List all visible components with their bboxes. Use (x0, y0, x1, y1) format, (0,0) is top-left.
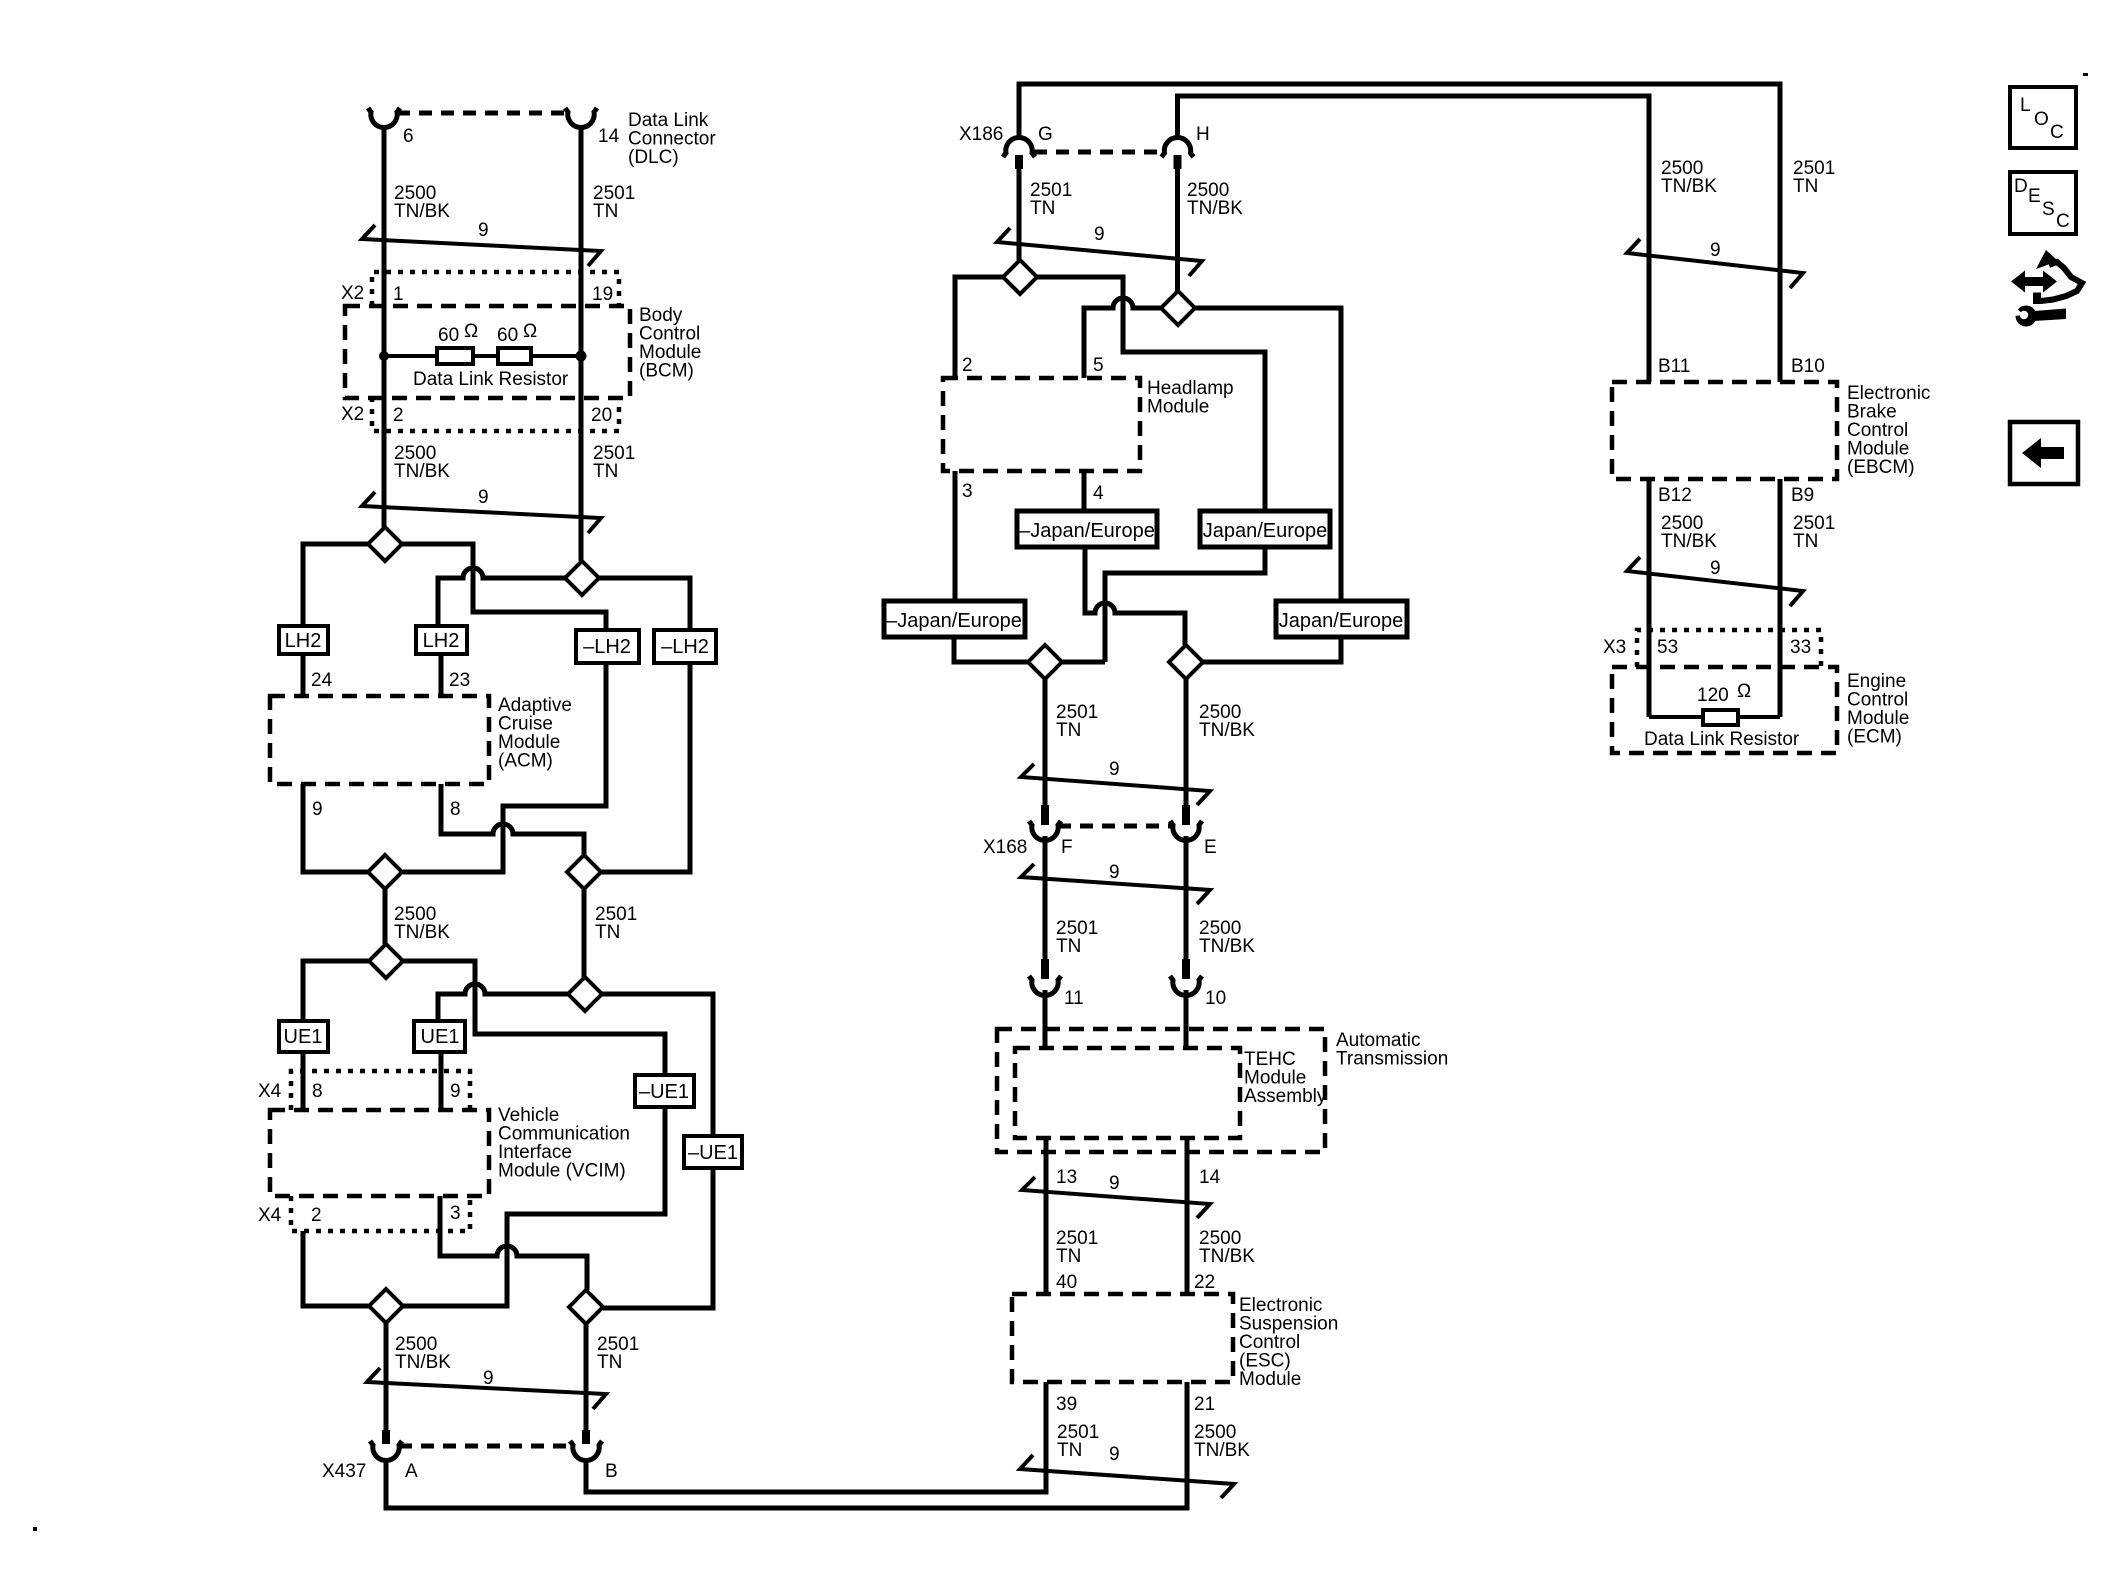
icon curved arrow band (2036, 262, 2082, 301)
svg-text:Data Link Resistor: Data Link Resistor (1644, 729, 1800, 750)
svg-text:3: 3 (962, 481, 973, 502)
wire 2501 TN G to splice S9 (1017, 169, 1022, 260)
svg-text:E: E (2028, 186, 2041, 207)
svg-text:2: 2 (311, 1205, 322, 1226)
svg-text:2: 2 (962, 355, 973, 376)
module TEHC inner dashed box (1015, 1048, 1240, 1138)
splice S4 (368, 855, 402, 889)
svg-text:9: 9 (478, 220, 489, 241)
wire 2500 TN/BK S4 to S5 (383, 889, 388, 944)
wire splice branch right of S10 to Japan/Europe B (1195, 308, 1341, 601)
svg-text:Module: Module (1147, 397, 1209, 418)
svg-text:9: 9 (1109, 1173, 1120, 1194)
wire splice branch left of S1 (303, 544, 368, 626)
wire -LH2 b return to splice S3 (601, 663, 690, 872)
option box UE1 b (414, 1021, 465, 1052)
splice S8 (369, 1289, 403, 1323)
terminal tick 10 (1182, 959, 1190, 979)
connector X186 dashed line (1034, 150, 1163, 155)
module EBCM dashed box (1612, 382, 1837, 479)
twisted pair symbol 4 (997, 228, 1202, 276)
wire 2501 TN X168 F down (1043, 836, 1048, 962)
svg-text:3: 3 (450, 1203, 461, 1224)
connector X4 row 2 (291, 1196, 470, 1231)
svg-text:21: 21 (1194, 1394, 1215, 1415)
svg-text:O: O (2034, 109, 2049, 130)
svg-text:UE1: UE1 (284, 1026, 323, 1048)
svg-text:TN/BK: TN/BK (1199, 936, 1255, 957)
wire Japan/Europe b return to splice S12 (1203, 637, 1341, 662)
wire LH2 a to ACM pin 24 (301, 654, 306, 696)
svg-text:G: G (1038, 124, 1053, 145)
svg-text:8: 8 (450, 799, 461, 820)
svg-text:11: 11 (1064, 988, 1084, 1009)
icon curved arrow head (2036, 250, 2058, 269)
wire splice branch left of S9 to headlamp pin 2 (955, 277, 1003, 378)
icon wrench (2016, 306, 2037, 327)
svg-text:(DLC): (DLC) (628, 147, 679, 168)
svg-text:24: 24 (311, 670, 333, 691)
wire VCIM pin 3 to splice S7 with hop (440, 1196, 587, 1290)
wire splice branch left of S2 with crossover hop (438, 568, 565, 626)
module ESC dashed box (1012, 1294, 1233, 1382)
connector X186 cup H (1162, 138, 1194, 157)
connector X4 row 1 (291, 1071, 470, 1110)
svg-text:TN: TN (1057, 1440, 1082, 1461)
svg-text:(EBCM): (EBCM) (1847, 457, 1915, 478)
wire splice branch right of S2 (599, 578, 690, 630)
wire splice branch left of S5 (303, 961, 369, 1021)
wire 2501 TN TEHC pin 13 down (1044, 1138, 1049, 1294)
option box -Japan/Europe a (1017, 511, 1157, 547)
svg-text:H: H (1196, 124, 1210, 145)
svg-text:10: 10 (1205, 988, 1226, 1009)
svg-text:TN/BK: TN/BK (394, 922, 450, 943)
connector DLC dashed line (397, 111, 568, 116)
wire headlamp pin 3 to -Japan/Europe b (953, 471, 958, 601)
svg-text:TN: TN (1793, 531, 1818, 552)
svg-text:TN: TN (1056, 720, 1081, 741)
svg-text:TN: TN (1793, 176, 1818, 197)
svg-text:TN/BK: TN/BK (394, 461, 450, 482)
connector X168 cup F (1029, 821, 1061, 840)
svg-text:(ACM): (ACM) (498, 751, 553, 772)
wire 2500 TN/BK H to splice S10 (1175, 169, 1180, 291)
connector X168 dashed line (1058, 824, 1173, 829)
svg-text:(ECM): (ECM) (1847, 727, 1902, 748)
option box -UE1 b (684, 1136, 742, 1168)
twisted pair symbol 7 (1022, 1177, 1210, 1218)
connector X168 terminal tick F (1041, 805, 1049, 825)
wire UE1 b to X4 pin 9 (439, 1052, 444, 1110)
twisted pair symbol (362, 225, 601, 266)
svg-text:–Japan/Europe: –Japan/Europe (886, 610, 1022, 632)
svg-text:D: D (2014, 176, 2028, 197)
option box -LH2 a (576, 630, 639, 663)
splice S9 (1003, 260, 1037, 294)
svg-text:–UE1: –UE1 (688, 1142, 738, 1164)
svg-text:B: B (605, 1461, 618, 1482)
svg-text:33: 33 (1790, 637, 1811, 658)
connector X186 terminal tick H (1174, 155, 1182, 169)
svg-text:9: 9 (478, 487, 489, 508)
svg-text:9: 9 (312, 799, 323, 820)
svg-text:TN/BK: TN/BK (1199, 720, 1255, 741)
connector X168 terminal tick E (1182, 805, 1190, 825)
svg-text:9: 9 (1109, 862, 1120, 883)
svg-text:LH2: LH2 (285, 630, 322, 652)
wire 2500 TN/BK EBCM B12 to ECM pin 53 (1647, 479, 1652, 717)
wire data link resistor chain ECM (1649, 715, 1780, 719)
connector X437 cup A (370, 1441, 402, 1460)
svg-text:LH2: LH2 (423, 630, 460, 652)
splice S10 (1161, 291, 1195, 325)
option box LH2 b (416, 626, 467, 654)
wire splice S11 right arm (1062, 660, 1105, 665)
svg-text:9: 9 (483, 1368, 494, 1389)
wire headlamp pin 4 to -Japan/Europe a (1082, 471, 1087, 511)
terminal cup 10 (1170, 976, 1202, 995)
svg-text:TN: TN (1056, 936, 1081, 957)
twisted pair symbol 6 (1021, 864, 1210, 904)
svg-text:6: 6 (403, 126, 414, 147)
svg-text:Module: Module (1239, 1369, 1301, 1390)
wire 2500 TN/BK S12 to X168 E (1184, 679, 1189, 810)
stray mark bottom left (33, 1527, 37, 1531)
splice S6 (568, 977, 602, 1011)
svg-text:A: A (405, 1461, 418, 1482)
wire Japan/Europe a return to splice S11 (1105, 547, 1265, 662)
svg-text:C: C (2056, 211, 2070, 232)
resistor R2 60 ohm (498, 348, 531, 364)
svg-text:9: 9 (1109, 1444, 1120, 1465)
option box Japan/Europe a (1200, 511, 1330, 547)
wire top bus 2501 TN from X186 G to EBCM B10 (1019, 84, 1780, 382)
svg-text:9: 9 (1109, 759, 1120, 780)
svg-text:X186: X186 (959, 124, 1003, 145)
twisted pair symbol 8 (1020, 1455, 1234, 1498)
svg-text:2: 2 (393, 405, 404, 426)
wire 2501 TN from DLC pin 14 (579, 125, 584, 561)
svg-text:20: 20 (591, 405, 612, 426)
wire UE1 a to X4 pin 8 (301, 1052, 306, 1110)
option box -UE1 a (635, 1075, 694, 1107)
option box UE1 a (279, 1021, 328, 1052)
splice S2 (565, 561, 599, 595)
wire -LH2 a return to splice S4 (403, 663, 606, 872)
wire LH2 b to ACM pin 23 (439, 654, 444, 696)
connector DLC cup pin 6 (368, 108, 400, 127)
svg-text:F: F (1061, 837, 1073, 858)
wire top bus 2500 TN/BK from X186 H to EBCM B11 (1178, 96, 1650, 382)
connector X437 terminal tick A (382, 1430, 390, 1444)
svg-text:Module (VCIM): Module (VCIM) (498, 1161, 626, 1182)
svg-text:9: 9 (1710, 240, 1721, 261)
wire cup 11 to TEHC (1043, 990, 1048, 1048)
svg-text:X4: X4 (258, 1081, 282, 1102)
splice S11 (1028, 645, 1062, 679)
connector X437 dashed line (399, 1444, 573, 1449)
wire -Japan/Europe a return to splice S12 with hop (1085, 547, 1185, 645)
svg-text:TN/BK: TN/BK (1187, 198, 1243, 219)
svg-text:Japan/Europe: Japan/Europe (1279, 610, 1404, 632)
connector X3 row (1637, 630, 1821, 667)
wire ACM pin 9 to splice S4 (303, 784, 368, 872)
svg-text:13: 13 (1056, 1167, 1077, 1188)
option box Japan/Europe b (1276, 601, 1407, 637)
splice S1 (368, 527, 402, 561)
wire -UE1 a return to splice S8 (403, 1107, 665, 1306)
svg-text:L: L (2020, 95, 2031, 116)
module BCM dashed box (345, 306, 630, 398)
resistor R3 120 ohm (1703, 710, 1738, 725)
svg-text:–Japan/Europe: –Japan/Europe (1019, 520, 1155, 542)
module ECM dashed box (1612, 667, 1837, 753)
stray mark top right (2083, 73, 2088, 76)
connector X2 row 2 (372, 397, 619, 431)
svg-text:TN/BK: TN/BK (394, 201, 450, 222)
module Automatic Transmission outer dashed box (997, 1029, 1325, 1152)
svg-text:Transmission: Transmission (1336, 1049, 1448, 1070)
junction dot right (576, 351, 587, 362)
svg-text:X168: X168 (983, 837, 1027, 858)
svg-text:UE1: UE1 (421, 1026, 460, 1048)
svg-text:60: 60 (497, 325, 518, 346)
wire -Japan/Europe b return to splice S11 (954, 637, 1028, 662)
svg-text:B11: B11 (1658, 356, 1690, 377)
svg-text:X2: X2 (341, 283, 364, 304)
svg-text:Japan/Europe: Japan/Europe (1203, 520, 1328, 542)
connector X437 cup B (570, 1441, 602, 1460)
svg-text:60: 60 (438, 325, 459, 346)
svg-text:X437: X437 (322, 1461, 366, 1482)
wire splice branch left of S6 with hop (438, 984, 568, 1021)
svg-text:TN: TN (1056, 1246, 1081, 1267)
module VCIM dashed box (270, 1110, 489, 1196)
twisted pair symbol 3 (367, 1368, 606, 1409)
connector X437 terminal tick B (582, 1430, 590, 1444)
svg-text:14: 14 (598, 126, 620, 147)
svg-text:B12: B12 (1658, 485, 1692, 506)
svg-text:Data Link Resistor: Data Link Resistor (413, 369, 569, 390)
splice S7 (569, 1290, 603, 1324)
svg-text:TN/BK: TN/BK (1661, 531, 1717, 552)
module Headlamp dashed box (943, 378, 1140, 471)
wire 2501 TN S11 to X168 F (1043, 679, 1048, 810)
svg-text:TN: TN (593, 461, 618, 482)
svg-text:C: C (2050, 122, 2064, 143)
svg-text:B9: B9 (1791, 485, 1814, 506)
svg-text:8: 8 (312, 1081, 323, 1102)
svg-text:X4: X4 (258, 1205, 282, 1226)
twisted pair symbol 9 (1627, 239, 1803, 288)
svg-text:40: 40 (1056, 1272, 1077, 1293)
wire ACM pin 8 to splice S3 with hop (441, 784, 584, 855)
wire 2501 TN EBCM B9 to ECM pin 33 (1778, 479, 1783, 717)
svg-text:TN: TN (597, 1352, 622, 1373)
svg-text:Ω: Ω (1737, 681, 1751, 702)
icon double arrow (2011, 271, 2057, 293)
terminal tick 11 (1041, 959, 1049, 979)
splice S5 (369, 944, 403, 978)
svg-text:X3: X3 (1603, 637, 1626, 658)
svg-text:–UE1: –UE1 (639, 1081, 689, 1103)
svg-text:(BCM): (BCM) (639, 361, 694, 382)
connector DLC cup pin 14 (565, 108, 597, 127)
connector X186 cup G (1003, 138, 1035, 157)
svg-text:TN: TN (1030, 198, 1055, 219)
connector X2 row 1 (372, 272, 619, 306)
wire 2500 TN/BK S8 to X437 A (384, 1323, 389, 1430)
svg-text:23: 23 (449, 670, 470, 691)
icon DESC box (2010, 172, 2076, 234)
svg-text:19: 19 (592, 284, 613, 305)
svg-text:TN/BK: TN/BK (395, 1352, 451, 1373)
splice S3 (567, 855, 601, 889)
svg-text:4: 4 (1093, 483, 1104, 504)
svg-text:X2: X2 (341, 404, 364, 425)
icon LOC box (2010, 87, 2076, 148)
svg-text:9: 9 (450, 1081, 461, 1102)
wire -UE1 b return to splice S7 (603, 1168, 713, 1308)
svg-text:TN/BK: TN/BK (1194, 1440, 1250, 1461)
svg-text:Ω: Ω (464, 321, 478, 342)
twisted pair symbol 10 (1627, 557, 1803, 606)
icon left arrow box (2010, 422, 2078, 484)
svg-text:5: 5 (1093, 355, 1104, 376)
wire splice branch right of S1 to -LH2 leg (402, 544, 606, 630)
option box LH2 a (279, 626, 328, 654)
svg-text:–LH2: –LH2 (583, 636, 631, 658)
svg-text:39: 39 (1056, 1394, 1077, 1415)
junction dot left (379, 351, 389, 361)
resistor R1 60 ohm (437, 348, 473, 364)
terminal cup 11 (1029, 976, 1061, 995)
wire splice branch right of S9 to Japan/Europe A (1037, 277, 1265, 511)
connector X186 terminal tick G (1015, 155, 1023, 169)
twisted pair symbol 5 (1021, 764, 1210, 805)
svg-text:B10: B10 (1791, 356, 1825, 377)
wire 2500 TN/BK X168 E down (1184, 836, 1189, 962)
icon left arrow (2022, 438, 2064, 468)
option box -LH2 b (654, 630, 716, 663)
svg-text:9: 9 (1710, 558, 1721, 579)
wire 2500 TN/BK from DLC pin 6 (382, 125, 387, 527)
wire data link resistor chain (384, 354, 581, 358)
module ACM dashed box (270, 696, 489, 784)
svg-text:TN: TN (593, 201, 618, 222)
wire cup 10 to TEHC (1184, 990, 1189, 1048)
connector X168 cup E (1170, 821, 1202, 840)
svg-text:9: 9 (1094, 224, 1105, 245)
wire splice branch right of S5 to -UE1 leg (403, 961, 665, 1075)
wire 2501 TN S7 to X437 B (584, 1324, 589, 1430)
wire 2501 TN S3 to S6 (582, 889, 587, 977)
wire VCIM pin 2 to splice S8 (303, 1231, 369, 1306)
wire splice branch left of S10 to headlamp pin 5 with hop (1084, 298, 1161, 378)
svg-text:1: 1 (393, 284, 404, 305)
wire 2500 TN/BK TEHC pin 14 down (1185, 1138, 1190, 1294)
svg-text:–LH2: –LH2 (661, 636, 709, 658)
svg-text:Assembly: Assembly (1244, 1086, 1327, 1107)
svg-text:TN/BK: TN/BK (1661, 176, 1717, 197)
splice S12 (1169, 645, 1203, 679)
svg-text:TN: TN (595, 922, 620, 943)
svg-text:TN/BK: TN/BK (1199, 1246, 1255, 1267)
wire splice branch right of S6 (602, 994, 713, 1136)
svg-text:E: E (1204, 837, 1217, 858)
svg-text:22: 22 (1194, 1272, 1215, 1293)
svg-text:S: S (2042, 199, 2055, 220)
wire X437 A to ESC pin 21 (386, 1382, 1187, 1508)
svg-text:Ω: Ω (523, 321, 537, 342)
svg-text:14: 14 (1199, 1167, 1221, 1188)
twisted pair symbol 2 (362, 492, 601, 533)
svg-text:53: 53 (1657, 637, 1678, 658)
wire X437 B to ESC pin 39 (586, 1382, 1046, 1492)
option box -Japan/Europe b (884, 601, 1025, 637)
svg-text:120: 120 (1697, 685, 1729, 706)
